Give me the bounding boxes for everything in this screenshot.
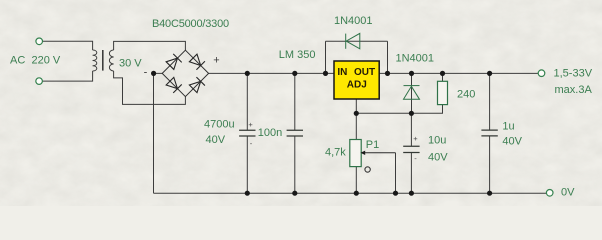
capacitor C1 4700u plates bbox=[239, 130, 255, 136]
potentiometer P1 terminal mark bbox=[365, 167, 370, 172]
node: out rail D2 tap bbox=[409, 71, 414, 76]
diode D2 1N4001 adj protect bbox=[404, 86, 420, 100]
regulator U1 LM350 body bbox=[334, 61, 379, 99]
node: adj line pot junction bbox=[354, 111, 359, 116]
svg-text:max.3A: max.3A bbox=[555, 84, 593, 96]
wire: 1u cap top lead bbox=[489, 73, 491, 130]
wire: pot bottom to 0V rail bbox=[355, 167, 357, 194]
wire: ADJ pin down bbox=[355, 99, 357, 113]
terminal: AC input bottom bbox=[36, 78, 43, 85]
wire: 240 resistor top lead bbox=[442, 73, 444, 81]
bridge diode top-right bbox=[189, 54, 205, 70]
bridge diode bottom-left bbox=[166, 77, 182, 93]
svg-text:1N4001: 1N4001 bbox=[396, 53, 435, 65]
svg-text:30 V: 30 V bbox=[119, 57, 142, 69]
node: out rail 240 tap bbox=[440, 71, 445, 76]
svg-text:ADJ: ADJ bbox=[347, 79, 367, 90]
wire: secondary top to bridge top vertex bbox=[114, 41, 186, 50]
diode D1 1N4001 bypass bbox=[346, 33, 360, 48]
svg-text:240: 240 bbox=[457, 89, 475, 101]
wire: secondary bottom to bridge bottom vertex bbox=[114, 71, 186, 104]
terminal: output plus bbox=[538, 70, 545, 77]
wire: bridge minus output to 0V rail bbox=[154, 73, 163, 193]
svg-text:4700u: 4700u bbox=[204, 118, 235, 130]
capacitor C3 10u plates bbox=[403, 146, 419, 152]
node: 0V rail 1u bbox=[487, 191, 492, 196]
svg-text:220 V: 220 V bbox=[32, 55, 61, 67]
svg-text:40V: 40V bbox=[428, 152, 448, 164]
svg-text:-: - bbox=[144, 67, 148, 79]
wire: bridge plus output to regulator IN bbox=[209, 72, 334, 74]
wire: 100n cap top lead bbox=[294, 73, 296, 130]
terminal: AC input top bbox=[36, 38, 43, 45]
capacitor C4 1u plates bbox=[481, 130, 497, 136]
svg-text:100n: 100n bbox=[258, 127, 282, 139]
wire: D1 bypass loop top bbox=[326, 40, 388, 42]
capacitor C2 100n plates bbox=[287, 130, 303, 136]
node: bridge minus junction bbox=[151, 71, 156, 76]
node: 0V rail pot bottom bbox=[354, 191, 359, 196]
svg-text:B40C5000/3300: B40C5000/3300 bbox=[152, 18, 229, 30]
transformer TR1 primary coil bbox=[93, 50, 97, 71]
node: 0V rail 10u bbox=[409, 191, 414, 196]
svg-text:40V: 40V bbox=[502, 135, 522, 147]
svg-text:1,5-33V: 1,5-33V bbox=[554, 68, 593, 80]
svg-text:1N4001: 1N4001 bbox=[334, 15, 373, 27]
svg-text:4,7k: 4,7k bbox=[325, 146, 346, 158]
wire: D1 bypass loop right leg bbox=[387, 41, 389, 73]
wire: 100n cap bottom lead bbox=[294, 136, 296, 193]
node: 0V rail wiper bbox=[393, 191, 398, 196]
svg-text:40V: 40V bbox=[206, 134, 226, 146]
wire: D1 bypass loop left leg bbox=[325, 41, 327, 73]
wire: 4700u cap top lead bbox=[246, 73, 248, 130]
wire: D2 lead through bbox=[411, 73, 413, 113]
svg-text:AC: AC bbox=[10, 55, 25, 67]
wire: 0V bottom rail bbox=[154, 192, 547, 194]
wire: 10u cap bottom lead bbox=[410, 153, 412, 194]
bridge diode top-left bbox=[166, 54, 182, 70]
wire: AC top terminal to transformer primary top bbox=[43, 41, 93, 50]
node: out rail 1u tap bbox=[487, 71, 492, 76]
wire: regulator OUT to output terminal bbox=[379, 72, 538, 74]
wire: ADJ line to resistor bottom bbox=[356, 105, 442, 114]
svg-text:OUT: OUT bbox=[354, 67, 375, 78]
svg-text:+: + bbox=[248, 120, 253, 129]
svg-text:IN: IN bbox=[337, 67, 347, 78]
transformer core bbox=[102, 50, 104, 71]
svg-text:+: + bbox=[213, 54, 219, 66]
svg-text:10u: 10u bbox=[428, 135, 446, 147]
wire: AC bottom terminal to transformer primary bottom bbox=[43, 71, 93, 81]
resistor R1 240 body bbox=[438, 81, 448, 104]
bridge rectifier B1 diamond bbox=[162, 50, 208, 96]
svg-text:+: + bbox=[413, 134, 418, 143]
node: +rail 4700u tap bbox=[245, 71, 250, 76]
node: +rail 100n tap bbox=[292, 71, 297, 76]
wire: 4700u cap bottom lead bbox=[246, 136, 248, 193]
node: out rail bypass right bbox=[385, 71, 390, 76]
node: adj line 10u junction bbox=[409, 111, 414, 116]
svg-text:LM 350: LM 350 bbox=[279, 49, 316, 61]
potentiometer P1 body bbox=[350, 140, 361, 167]
wire: 1u cap bottom lead bbox=[489, 136, 491, 193]
terminal: output 0V bbox=[546, 190, 553, 197]
transformer TR1 secondary coil bbox=[109, 50, 113, 71]
wire: pot wiper down to 0V rail bbox=[395, 153, 397, 193]
wire: 10u cap top lead bbox=[410, 113, 412, 146]
node: +rail bypass left bbox=[323, 71, 328, 76]
node: 0V rail 100n bbox=[292, 191, 297, 196]
svg-text:0V: 0V bbox=[561, 186, 575, 198]
bridge diode bottom-right bbox=[189, 77, 205, 93]
potentiometer P1 wiper arrow bbox=[365, 152, 396, 154]
wire: ADJ node to pot top bbox=[355, 113, 357, 139]
svg-text:1u: 1u bbox=[502, 121, 514, 133]
svg-text:P1: P1 bbox=[366, 139, 379, 151]
node: 0V rail 4700u bbox=[245, 191, 250, 196]
